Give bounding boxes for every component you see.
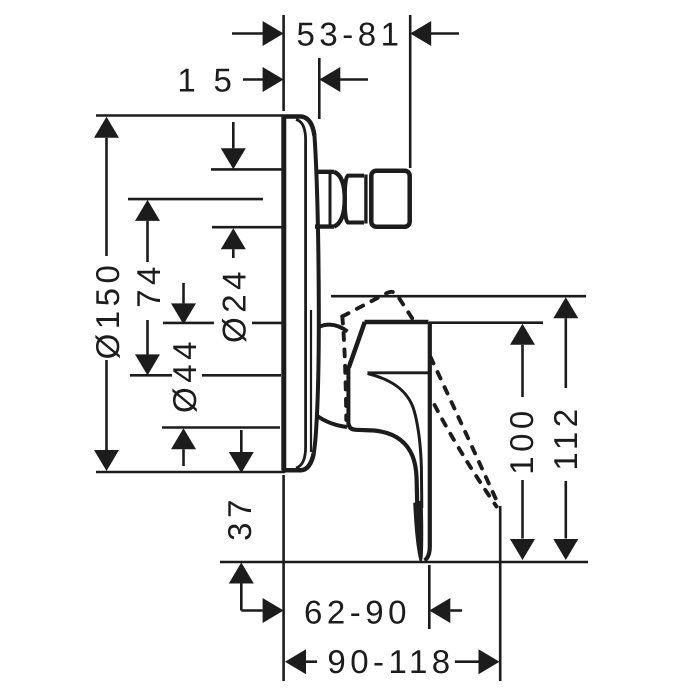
escutcheon plate front edge: [314, 136, 319, 453]
extension line stub axis: [128, 198, 263, 201]
spout stub section 1 top: [315, 170, 334, 174]
dim 62-90: [241, 609, 262, 612]
extension line valve axis left: [130, 374, 281, 377]
dim 112: [553, 297, 578, 318]
escutcheon plate middle contour: [310, 310, 312, 452]
escutcheon plate inner contour: [296, 120, 306, 469]
body left edge: [346, 367, 350, 425]
extension line plate front top: [318, 58, 321, 119]
svg-text:Ø24: Ø24: [216, 267, 253, 343]
dim 37: [240, 430, 243, 452]
dim 90-118: [285, 649, 306, 674]
dim D24: [232, 122, 235, 148]
extension line stub end: [409, 15, 412, 168]
extension line plate bottom: [96, 471, 285, 474]
extension line open lever tip: [499, 506, 502, 681]
dim 100: [510, 324, 535, 345]
dim 53-81: [232, 32, 263, 35]
valve axis line: [368, 371, 431, 374]
svg-text:Ø44: Ø44: [166, 337, 203, 413]
svg-text:90-118: 90-118: [327, 643, 454, 680]
svg-text:37: 37: [221, 495, 258, 541]
svg-text:62-90: 62-90: [304, 593, 411, 630]
extension line sleeve top: [163, 322, 282, 325]
dashed handle raised: top edge: [342, 292, 412, 319]
escutcheon plate back edge: [281, 116, 286, 471]
escutcheon plate bottom edge: [282, 453, 314, 470]
dim 15: [243, 78, 263, 81]
spout stub section 2: [345, 176, 364, 223]
body top edge: [365, 320, 429, 325]
dim D44: [182, 283, 185, 303]
spout stub section 1 bottom: [315, 224, 334, 228]
dashed handle raised: left edge: [342, 317, 346, 421]
extension line wall bottom: [282, 475, 285, 681]
dashed lever open: lower edge: [435, 405, 497, 507]
extension line lever tip: [428, 565, 431, 629]
svg-text:15: 15: [177, 62, 236, 99]
spout stub section 1 cap: [334, 172, 345, 227]
extension line stub top: [211, 168, 282, 171]
extension line stub bottom: [212, 226, 282, 229]
dim D150: [94, 117, 119, 138]
body left slant: [349, 322, 365, 368]
svg-text:Ø150: Ø150: [89, 261, 126, 360]
extension line dashed top: [331, 295, 586, 298]
svg-text:100: 100: [503, 406, 540, 475]
spout stub section 1 inner line: [329, 172, 332, 227]
lever bottom tip: [413, 500, 423, 562]
dashed lever open: upper edge: [431, 357, 500, 506]
extension line plate top: [96, 114, 282, 117]
dim 74: [135, 200, 160, 221]
spout stub section 3 block: [371, 171, 409, 227]
sleeve bottom edge: [317, 416, 348, 428]
sleeve top edge: [319, 325, 348, 332]
extension line body top right: [429, 321, 543, 324]
lever lower profile: [348, 423, 417, 504]
escutcheon plate top edge: [282, 117, 315, 137]
svg-text:112: 112: [547, 404, 584, 470]
extension line wall top: [282, 15, 285, 111]
extension line sleeve bottom: [162, 426, 280, 429]
svg-text:53-81: 53-81: [297, 16, 404, 53]
spout stub section 2 right edge: [364, 175, 367, 224]
baseline: [220, 561, 588, 564]
lever front curve: [368, 374, 422, 509]
body right edge / lever back: [425, 322, 430, 561]
svg-text:74: 74: [130, 262, 167, 308]
